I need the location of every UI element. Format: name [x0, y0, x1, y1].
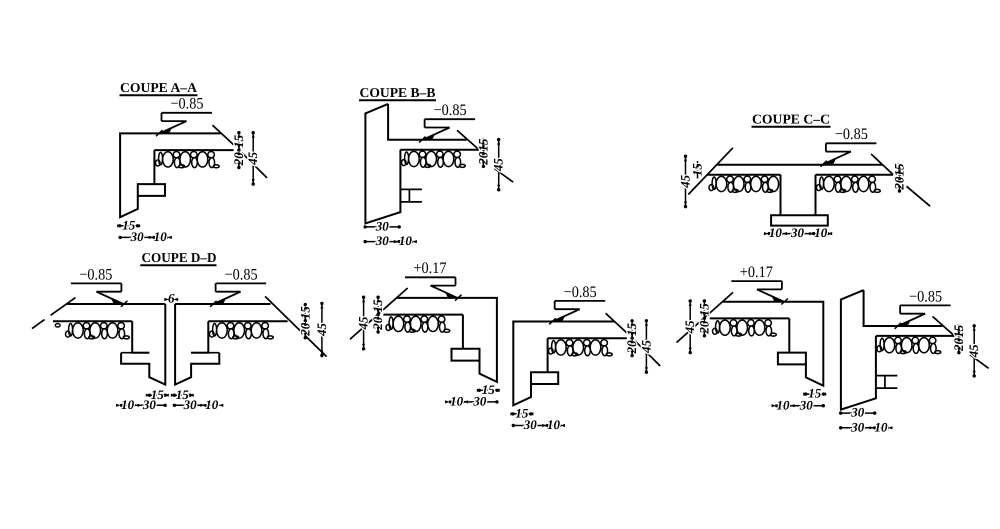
svg-text:10: 10	[547, 417, 561, 432]
break line D-D far left	[51, 298, 76, 316]
svg-text:−0.85: −0.85	[564, 284, 597, 301]
svg-text:10: 10	[875, 419, 889, 434]
dimension 30+10 (right -0.85 30+10)	[841, 427, 888, 429]
footing block C-C	[771, 215, 828, 225]
break line right -0.85 lower	[970, 355, 989, 369]
dimension 30+10 (A-A 30+10)	[120, 236, 167, 238]
vertical dimension 45 (mid -0.85 right outer)	[645, 321, 647, 372]
wall outline B-B	[365, 104, 400, 223]
break line right -0.85 upper	[933, 316, 955, 336]
footing block mid +0.17	[452, 349, 480, 361]
svg-text:COUPE A–A: COUPE A–A	[120, 80, 197, 95]
footing block mid -0.85	[531, 372, 558, 384]
level marker &#8722;0.85 (right -0.85)	[900, 304, 951, 306]
vertical dimension 45 (right -0.85 outer)	[973, 326, 975, 376]
hatch line mid +0.17	[383, 314, 463, 316]
keyed joint detail B-B	[400, 188, 422, 190]
break line mid +0.17 (long)	[350, 288, 408, 339]
hatch line D-D left	[53, 320, 132, 322]
svg-text:30: 30	[375, 219, 390, 234]
wall under-hatch edge mid +0.17	[462, 315, 464, 349]
svg-text:45: 45	[245, 151, 260, 166]
svg-text:30: 30	[472, 394, 487, 409]
vertical dimension 15+20 (right -0.85)	[958, 326, 960, 353]
break line mid -0.85 lower	[635, 341, 660, 366]
wall top line D-D right	[175, 303, 270, 305]
wall top edge B-B	[388, 104, 467, 140]
hatch line A-A	[154, 149, 233, 151]
dimension 15 (A-A 15)	[120, 225, 138, 227]
dimension 30 (B-B 30)	[365, 226, 399, 228]
vertical dimension 15+20 (mid +0.17 left)	[377, 297, 379, 332]
gravel hatch right -0.85	[877, 337, 941, 353]
wall outline mid -0.85	[513, 322, 614, 406]
vertical dimension 15+20 (A-A right)	[238, 133, 240, 168]
slab thickness dim 15 C-C left	[697, 161, 699, 179]
level marker &#8722;0.85 (A-A)	[162, 112, 213, 114]
svg-text:10: 10	[205, 397, 219, 412]
dimension 30+10 (mid -0.85 30+10)	[513, 425, 560, 427]
vertical dimension 15+20 (mid -0.85 right)	[631, 321, 633, 356]
slab top line C-C	[717, 164, 883, 166]
stem walls C-C	[780, 175, 782, 216]
wall outline mid +0.17	[397, 298, 497, 382]
dimension 15 (mid -0.85 15)	[513, 413, 531, 415]
svg-text:COUPE D–D: COUPE D–D	[142, 250, 217, 265]
level marker +0.17 (right +0.17)	[731, 280, 782, 282]
left pier outline D-D	[132, 321, 149, 353]
break line A-A upper	[212, 125, 233, 145]
wall outline A-A	[120, 133, 221, 217]
vertical dimension 45 (mid +0.17 left outer)	[363, 297, 365, 349]
gravel hatch mid +0.17	[386, 316, 450, 332]
svg-text:+0.17: +0.17	[740, 264, 773, 281]
hatch line mid -0.85	[548, 337, 627, 339]
break line A-A lower	[242, 153, 267, 178]
dimension 15 (D-D 15 left)	[149, 394, 165, 396]
vertical dimension 45 (B-B right outer)	[498, 140, 500, 190]
svg-text:30: 30	[790, 225, 805, 240]
svg-text:10: 10	[154, 229, 168, 244]
svg-text:−0.85: −0.85	[835, 126, 868, 143]
svg-text:10: 10	[769, 225, 783, 240]
dimension 30+10 (D-D low right)	[174, 404, 217, 406]
hatch line D-D right	[208, 320, 287, 322]
svg-text:30: 30	[850, 419, 865, 434]
vertical dimension 15+20 (B-B right)	[482, 140, 484, 167]
dimension 15 (mid +0.17 15)	[479, 389, 497, 391]
svg-text:−0.85: −0.85	[909, 288, 942, 305]
wall top line D-D left	[67, 303, 165, 305]
level marker &#8722;0.85 (C-C)	[826, 142, 877, 144]
hatch line B-B	[400, 149, 479, 151]
svg-text:−0.85: −0.85	[79, 266, 112, 283]
vertical dimension 45 (C-C left 45)	[685, 156, 687, 206]
vertical dimension 45 (right +0.17 left outer)	[689, 301, 691, 353]
svg-text:45: 45	[638, 340, 653, 355]
svg-text:COUPE B–B: COUPE B–B	[360, 85, 436, 100]
svg-text:30: 30	[142, 397, 157, 412]
svg-text:10: 10	[814, 225, 828, 240]
dimension 10+30 (right +0.17 10+30)	[777, 405, 824, 407]
break line right +0.17 (long)	[677, 292, 734, 342]
level marker +0.17 (mid +0.17)	[405, 276, 456, 278]
svg-text:10: 10	[121, 397, 135, 412]
svg-text:10: 10	[450, 394, 464, 409]
dimension 15 (D-D 15 right)	[174, 394, 190, 396]
svg-text:45: 45	[356, 316, 371, 331]
hatch line right +0.17	[710, 317, 790, 319]
gravel hatch C-C right	[817, 176, 881, 192]
svg-text:10: 10	[777, 397, 791, 412]
wall outline right -0.85	[841, 290, 876, 410]
vertical dimension 45 (A-A right outer)	[252, 133, 254, 184]
gravel hatch D-D right	[210, 323, 274, 339]
dimension 10+30+10 (C-C bottom)	[769, 233, 828, 235]
vertical dimension 15+20 (D-D right)	[304, 305, 306, 338]
gravel hatch mid -0.85	[549, 340, 613, 356]
gravel hatch A-A	[156, 152, 220, 168]
wall top edge right -0.85	[864, 290, 943, 326]
break line mid -0.85 upper	[606, 313, 627, 333]
svg-text:45: 45	[966, 344, 981, 359]
footing block right +0.17	[778, 353, 806, 365]
level marker &#8722;0.85 (B-B)	[425, 118, 476, 120]
hatch line C-C right	[816, 174, 894, 176]
right pier outline D-D	[191, 321, 208, 353]
svg-text:30: 30	[523, 417, 538, 432]
break line B-B lower	[494, 169, 513, 183]
svg-text:15: 15	[892, 163, 907, 177]
gravel hatch B-B	[402, 151, 466, 167]
vertical dimension 45 (D-D right outer)	[321, 304, 323, 356]
level marker &#8722;0.85 (D-D right)	[216, 282, 267, 284]
vertical dimension 15+20 (right +0.17 left)	[703, 301, 705, 336]
level marker &#8722;0.85 (D-D left)	[71, 282, 122, 284]
svg-text:6: 6	[168, 291, 175, 306]
svg-text:30: 30	[850, 405, 865, 420]
svg-text:−0.85: −0.85	[171, 96, 204, 113]
dimension 10+30 (D-D low left)	[122, 404, 166, 406]
svg-text:+0.17: +0.17	[414, 260, 447, 277]
gravel hatch C-C left	[709, 176, 779, 192]
wall under-hatch edge A-A	[153, 150, 155, 184]
svg-text:30: 30	[183, 397, 198, 412]
svg-text:30: 30	[375, 233, 390, 248]
hatch line C-C left	[707, 174, 780, 176]
svg-text:10: 10	[399, 233, 413, 248]
svg-text:30: 30	[799, 397, 814, 412]
footing block A-A	[138, 184, 165, 196]
dimension 30+10 (B-B 30+10)	[365, 241, 412, 243]
dimension 15 (right +0.17 15)	[806, 393, 824, 395]
svg-text:45: 45	[491, 158, 506, 173]
svg-text:COUPE C–C: COUPE C–C	[752, 112, 830, 127]
wall outline right +0.17	[723, 302, 823, 386]
svg-text:30: 30	[130, 229, 145, 244]
break line C-C right lower	[907, 186, 931, 206]
dimension 30 (right -0.85 30)	[841, 412, 875, 414]
keyed joint detail right -0.85	[876, 375, 898, 377]
svg-text:−0.85: −0.85	[434, 102, 467, 119]
wall under-hatch edge right +0.17	[788, 318, 790, 352]
break line C-C left	[688, 148, 733, 195]
vertical dimension 15+20 (C-C right)	[899, 165, 901, 191]
hatch line right -0.85	[876, 335, 955, 337]
svg-text:45: 45	[314, 323, 329, 338]
gravel hatch right +0.17	[713, 320, 777, 336]
break line B-B upper	[457, 130, 479, 150]
svg-text:45: 45	[682, 320, 697, 335]
break line D-D right (long)	[265, 296, 327, 356]
svg-text:−0.85: −0.85	[225, 266, 258, 283]
dimension 10+30 (mid +0.17 10+30)	[450, 401, 497, 403]
break line C-C right upper	[871, 154, 893, 175]
gravel hatch D-D left	[66, 323, 130, 339]
wall under-hatch edge mid -0.85	[547, 338, 549, 372]
level marker &#8722;0.85 (mid -0.85)	[555, 300, 606, 302]
